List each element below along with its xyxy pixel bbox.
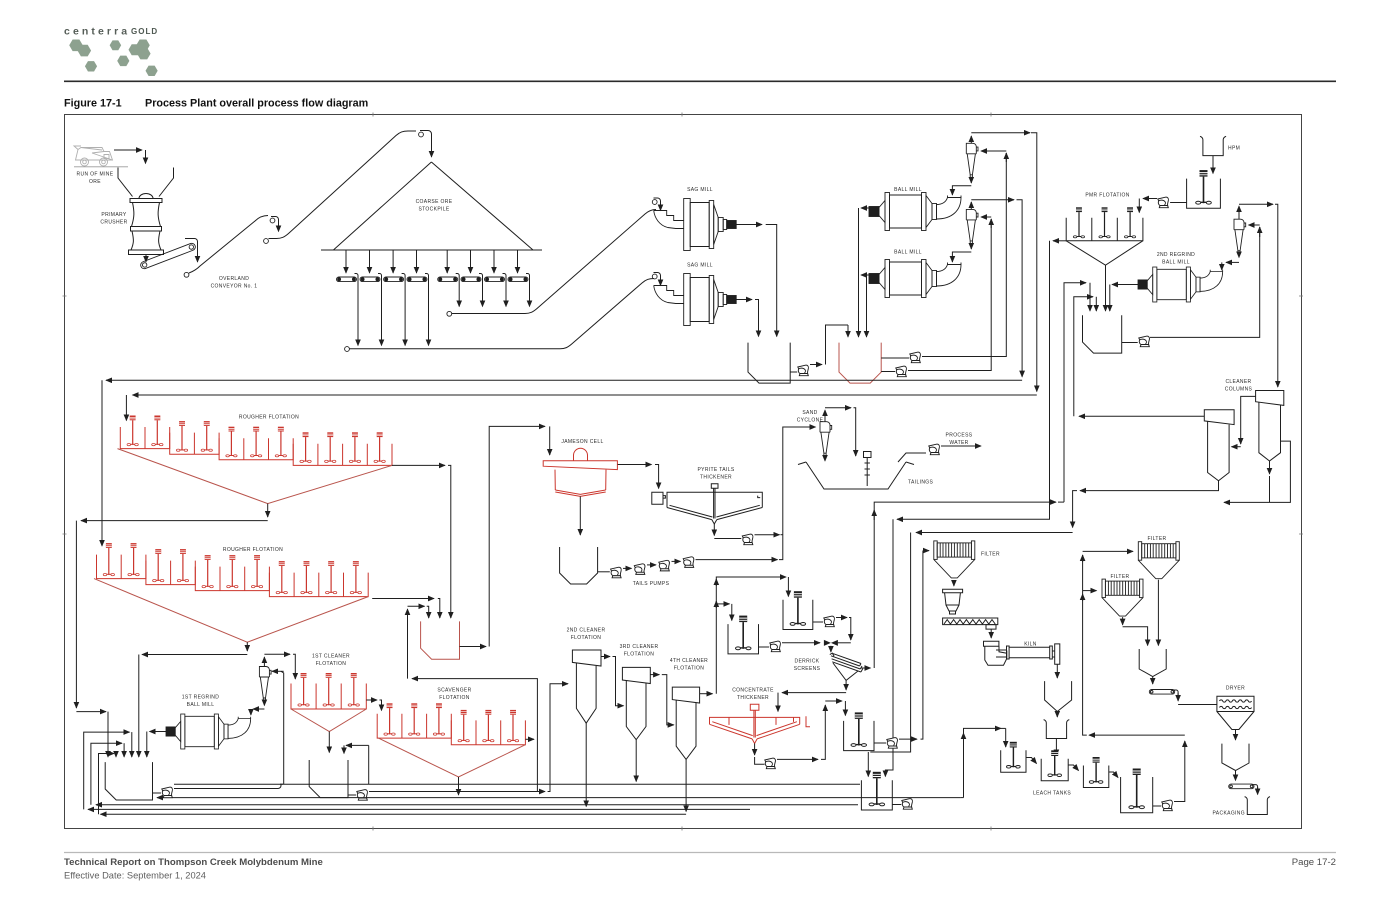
primary crusher body <box>139 194 153 199</box>
wire: feeder 3 discharge <box>402 274 406 283</box>
jameson cell (red) <box>574 448 588 460</box>
svg-text:COARSE ORE: COARSE ORE <box>416 199 453 205</box>
wire: regrind mill discharge to regrind sump <box>1112 284 1138 286</box>
svg-text:FLOTATION: FLOTATION <box>624 652 655 658</box>
svg-text:SCAVENGER: SCAVENGER <box>437 688 471 694</box>
footer rule <box>64 852 1336 854</box>
wire: sand cyclone underflow to tailings <box>824 456 826 461</box>
wire: screens undersize down <box>845 680 847 690</box>
pump: sag sump pump <box>798 365 809 376</box>
wire: rougher 1 tails to flotation feed sump <box>392 464 445 466</box>
svg-text:BALL MILL: BALL MILL <box>1162 260 1190 266</box>
pump: process water pump <box>929 444 940 455</box>
svg-text:3RD CLEANER: 3RD CLEANER <box>620 644 659 650</box>
svg-text:PMR FLOTATION: PMR FLOTATION <box>1085 193 1129 199</box>
1st cleaner flotation bank <box>291 684 366 710</box>
wire: riser to filter 2 <box>1083 590 1097 592</box>
svg-text:FLOTATION: FLOTATION <box>674 666 705 672</box>
feeder 3 <box>392 250 394 273</box>
wire: ball mill 1 discharge to cyclone feed sump <box>861 207 869 209</box>
feeder 8 <box>517 250 519 273</box>
pump: storage tank A pump <box>824 616 835 627</box>
leach tank 1 <box>1001 750 1026 772</box>
2nd cleaner column <box>572 650 601 666</box>
wire: rougher 2 concentrate down to regrind sump collection <box>246 642 248 651</box>
wire: 1st cleaner tails to scavenger <box>366 699 377 701</box>
rougher bank 2 concentrate funnel <box>94 579 368 643</box>
svg-text:Page 17-2: Page 17-2 <box>1292 857 1336 868</box>
wire: cyclone 2 underflow to ball mill 2 <box>970 244 972 249</box>
sand cyclone <box>820 422 832 456</box>
wire: regrind cyclone underflow to regrind mill <box>1238 253 1240 258</box>
wire: sand cyclone overflow to tailings <box>824 410 826 422</box>
wire: screw conveyor to kiln <box>990 629 992 638</box>
wire: PMR tails to rougher feed line B <box>1053 240 1066 242</box>
wire: thickener u/f pump to leach feed tank <box>777 758 818 760</box>
concentrate thickener (red) <box>710 717 800 724</box>
dryer product hopper <box>1222 744 1249 771</box>
flotation feed sump (red) <box>421 621 460 659</box>
packaging conveyor <box>1229 784 1254 789</box>
svg-text:Process Plant overall process: Process Plant overall process flow diagr… <box>145 98 368 110</box>
feeder 5 <box>446 250 448 273</box>
kiln product hopper <box>1045 681 1072 711</box>
wire: HPM to reagent tank <box>1212 156 1214 174</box>
wire: rougher 2 tails to flotation feed sump <box>372 598 434 600</box>
wire: valve to derrick screens <box>830 646 832 652</box>
1st cleaner feed cyclone <box>259 666 271 700</box>
svg-text:CONVEYOR No. 1: CONVEYOR No. 1 <box>211 284 258 290</box>
wire: column 2 recycle to column 1 <box>1241 396 1256 444</box>
svg-text:OVERLAND: OVERLAND <box>219 276 249 282</box>
wire: pump to primary cyclone 1 <box>922 153 1006 357</box>
PMR flotation bank <box>1066 218 1143 241</box>
wire: 3rd cleaner concentrate to 4th cleaner <box>650 674 659 676</box>
wire: 4th cleaner concentrate to riser <box>700 693 713 695</box>
SAG mill discharge sump <box>748 343 790 384</box>
pyrite tails thickener <box>667 492 762 507</box>
wire: jameson underflow to tails sump <box>579 496 581 535</box>
wire: crusher discharge <box>145 255 147 263</box>
regrind cyclone <box>1234 219 1246 253</box>
wire: tails collection line 6 <box>101 813 687 815</box>
wire: ball mill 2 discharge to cyclone feed sump <box>861 274 869 276</box>
wire: tote to leach tank 2 <box>1055 739 1057 756</box>
feeder 2 <box>369 250 371 273</box>
leach tank 3 <box>1083 766 1108 788</box>
pump: thickener underflow pump <box>765 758 776 769</box>
kiln feed box <box>984 641 1007 665</box>
svg-text:FLOTATION: FLOTATION <box>316 661 347 667</box>
wire: leach pump to filter riser <box>1174 741 1185 802</box>
svg-text:PROCESS: PROCESS <box>946 433 973 439</box>
svg-text:CONCENTRATE: CONCENTRATE <box>732 688 774 694</box>
tailings pond <box>798 462 914 489</box>
svg-text:DERRICK: DERRICK <box>795 659 820 665</box>
svg-text:THICKENER: THICKENER <box>700 475 732 481</box>
svg-text:FILTER: FILTER <box>1111 574 1130 580</box>
svg-text:ROUGHER FLOTATION: ROUGHER FLOTATION <box>239 415 299 421</box>
haul truck (run of mine ore) <box>74 146 128 167</box>
4th cleaner column <box>672 687 699 703</box>
svg-text:1ST CLEANER: 1ST CLEANER <box>312 654 350 660</box>
wire: riser x963 to leach tank 1 <box>961 797 964 799</box>
svg-text:FILTER: FILTER <box>1148 536 1167 542</box>
pyrite thickener feed box <box>652 492 666 504</box>
wire: column 2 side stream <box>1224 441 1290 502</box>
wire: 4th cleaner tails <box>685 759 687 811</box>
reclaim conveyor east (to SAG mill 1) <box>447 311 452 316</box>
wire: feeder 8 discharge <box>526 274 530 283</box>
cyclone feed sump (red) <box>839 343 881 384</box>
HPM hopper <box>1200 136 1226 155</box>
svg-text:THICKENER: THICKENER <box>737 695 769 701</box>
wire: cyclone 1 underflow to ball mill 1 <box>970 178 972 184</box>
wire: 2nd cleaner tails <box>585 723 587 806</box>
valve <box>824 640 838 646</box>
svg-text:TAILINGS: TAILINGS <box>908 480 934 486</box>
wire: flotation feed sump to jameson cell <box>460 646 487 648</box>
svg-text:Effective Date: September 1, 2: Effective Date: September 1, 2024 <box>64 871 206 881</box>
inclined feeder conveyor <box>140 242 197 270</box>
wire: riser to filter 1 <box>1083 550 1133 552</box>
wire: regrind circuit pump to cyclone <box>174 788 278 790</box>
svg-text:TAILS PUMPS: TAILS PUMPS <box>633 581 670 587</box>
wire: pump to primary cyclone 2 <box>908 219 991 371</box>
regrind mill sump <box>1083 315 1122 353</box>
svg-text:KILN: KILN <box>1024 642 1037 648</box>
svg-text:BALL MILL: BALL MILL <box>894 187 922 193</box>
svg-text:BALL MILL: BALL MILL <box>894 250 922 256</box>
pump: pyrite underflow pump <box>742 534 753 545</box>
wire: 1st cleaner cyclone overflow to 1st cleaner flotation <box>263 657 265 667</box>
wire: regrind pump to 1st cleaner cyclone <box>281 671 284 784</box>
pump: filter feed pump <box>887 738 898 749</box>
wire: regrind pump to regrind cyclone <box>1150 227 1260 337</box>
svg-text:RUN OF MINE: RUN OF MINE <box>77 172 114 178</box>
reagent mix tank <box>1187 179 1221 209</box>
wire: pyrite thickener underflow <box>713 524 715 536</box>
jameson tails sump <box>560 547 598 584</box>
cleaner column 2 <box>1256 391 1284 406</box>
wire: feeder 4 discharge <box>425 274 429 283</box>
wire: rougher feed line A (to lower bank) <box>106 379 1022 381</box>
scavenger flotation bank <box>377 714 451 738</box>
PMR concentrate funnel <box>1066 241 1143 265</box>
primary cyclone 1 <box>966 143 978 177</box>
rougher flotation bank 2 <box>97 555 146 579</box>
pump: regrind sump pump <box>1139 336 1150 347</box>
storage tank B <box>728 624 759 654</box>
wire: 1st cleaner cyclone underflow to 1st regrind mill <box>263 701 265 706</box>
svg-text:LEACH TANKS: LEACH TANKS <box>1033 791 1071 797</box>
wire: cyclone 2 overflow to rougher feed line A <box>970 202 972 209</box>
svg-text:SAND: SAND <box>802 410 817 416</box>
primary crusher hopper <box>118 168 174 197</box>
feeder 6 <box>470 250 472 273</box>
wire: tails pumps to sand cyclone <box>696 559 778 561</box>
wire: 1st cleaner concentrate to cleaner conc sump <box>328 732 330 753</box>
wire: feeder 1 discharge <box>355 274 359 283</box>
wire: leach cascade 1-2 <box>1026 758 1037 764</box>
cleaner column 1 <box>1204 410 1234 425</box>
leach tank 2 <box>1041 759 1068 781</box>
wire: tails collection line 4 <box>96 804 858 806</box>
wire: rougher 1 concentrate to left collection <box>267 504 269 517</box>
wire: feeder 6 discharge <box>479 274 483 283</box>
rougher flotation bank 1 <box>120 427 169 449</box>
wire: regrind cyclone overflow to cleaner column 2 <box>1238 206 1240 219</box>
svg-text:HPM: HPM <box>1228 146 1240 152</box>
wire: scavenger tails recycle <box>525 738 534 740</box>
svg-text:2ND REGRIND: 2ND REGRIND <box>1157 252 1195 258</box>
svg-text:SAG MILL: SAG MILL <box>687 187 713 193</box>
feeder 1 <box>345 250 347 273</box>
wire: feeder 7 discharge <box>503 274 507 283</box>
filter hopper and feeder <box>953 580 955 586</box>
overland conveyor no.1 profile <box>184 272 189 277</box>
3rd cleaner column <box>622 667 650 683</box>
pumps: tails pumps x4 <box>611 567 622 578</box>
packaging tote <box>1245 797 1270 815</box>
svg-text:SAG MILL: SAG MILL <box>687 263 713 269</box>
wire: 1st regrind discharge to cleaner sump <box>150 731 167 733</box>
derrick screens <box>830 653 863 672</box>
wire: leach cascade 2-3 <box>1068 765 1078 771</box>
svg-text:WATER: WATER <box>949 440 968 446</box>
wire: 3rd cleaner tails <box>635 740 637 782</box>
pump: cleaner conc pump <box>357 790 368 801</box>
regrind circuit sump <box>105 762 152 800</box>
svg-text:COLUMNS: COLUMNS <box>1225 387 1253 393</box>
cleaner concentrate sump <box>309 760 348 798</box>
kiln <box>996 646 1052 659</box>
wire: cleaner conc pump to 2nd cleaner column <box>369 791 545 793</box>
wire: reagent to PMR flotation <box>1143 198 1157 200</box>
svg-text:SCREENS: SCREENS <box>794 666 821 672</box>
svg-text:2ND CLEANER: 2ND CLEANER <box>567 628 606 634</box>
wire: derrick screen oversize return to regrind sump <box>1064 283 1086 502</box>
wire: rougher feed line B (to upper bank) <box>133 394 1037 396</box>
svg-text:PACKAGING: PACKAGING <box>1212 811 1245 817</box>
svg-text:CLEANER: CLEANER <box>1225 379 1251 385</box>
leach surge tank <box>861 780 892 810</box>
svg-text:STOCKPILE: STOCKPILE <box>418 207 449 213</box>
wire: tank A pump to valve junction <box>836 617 847 619</box>
wire: feeder to overland conveyor tail <box>185 239 198 260</box>
svg-text:BALL MILL: BALL MILL <box>187 702 215 708</box>
wire: 2nd cleaner concentrate to 3rd cleaner <box>601 656 610 658</box>
feeder 4 <box>416 250 418 273</box>
wire: tails collection line 3 <box>157 797 961 799</box>
primary cyclone 2 <box>966 209 978 243</box>
wire: truck to primary crusher <box>114 149 142 151</box>
wire: 4th cleaner concentrate riser to storage tanks <box>716 577 786 694</box>
wire: scavenger concentrate return to flotation feed sump <box>407 609 409 679</box>
wire: sag sump pump to cyclone feed sump <box>810 364 822 366</box>
dryer feed hopper <box>1139 649 1166 677</box>
wire: column 2 underflow <box>1269 461 1271 474</box>
pressure filter (centre) <box>934 541 975 578</box>
wire: tails collection line 5 <box>88 808 750 810</box>
wire: scavenger concentrate to tails line <box>458 777 460 795</box>
svg-text:4TH CLEANER: 4TH CLEANER <box>670 658 708 664</box>
wire: leach cascade 3-4 <box>1109 772 1118 778</box>
wire: 2nd cleaner feed line (cleaner columns tails) <box>1080 481 1219 491</box>
pump: cyclone feed pump 2 <box>896 366 907 377</box>
wire: filter 1 cake to dryer hopper <box>1157 580 1159 646</box>
wire: concentrate thickener underflow <box>754 744 756 756</box>
wire: screens oversize to regrind circuit <box>861 667 871 669</box>
kiln product tote <box>1044 720 1070 739</box>
wire: process water supply <box>941 445 981 447</box>
svg-text:GOLD: GOLD <box>131 27 158 36</box>
wire: feeder 2 discharge <box>378 274 382 283</box>
storage tank A <box>783 600 813 630</box>
svg-text:FLOTATION: FLOTATION <box>571 635 602 641</box>
svg-text:ORE: ORE <box>89 179 101 185</box>
wire: feeder 5 discharge <box>456 274 460 283</box>
svg-text:Technical Report on Thompson C: Technical Report on Thompson Creek Molyb… <box>64 857 323 868</box>
wire: SAG mill 1 discharge to mill sump <box>736 224 762 226</box>
wire: SAG mill 2 discharge to mill sump <box>736 299 752 301</box>
wire: PMR concentrate to regrind sump <box>1105 265 1107 311</box>
dryer feed conveyor <box>1149 690 1174 695</box>
wire: filter 2 cake to dryer hopper <box>1122 617 1124 625</box>
wire: recycle into cleaner conc sump <box>346 744 369 746</box>
wire: pyrite pump to tails riser <box>755 534 780 536</box>
svg-text:CRUSHER: CRUSHER <box>100 220 127 226</box>
wire: filter feed pump to pressure filter <box>899 738 917 740</box>
screw conveyor <box>943 618 998 625</box>
wire: kiln discharge <box>1056 664 1058 678</box>
pump: storage tank B pump <box>770 641 781 652</box>
svg-text:centerra: centerra <box>64 26 130 38</box>
svg-text:Figure 17-1: Figure 17-1 <box>64 98 122 110</box>
1st cleaner concentrate funnel <box>291 709 366 732</box>
svg-text:1ST REGRIND: 1ST REGRIND <box>182 695 219 701</box>
wire: screens undersize to concentrate thickener <box>782 692 846 694</box>
stockpile feed conveyor <box>264 239 269 244</box>
wire: cyclone 1 overflow to rougher feed line B <box>970 136 972 143</box>
leach tank 4 <box>1121 777 1153 813</box>
pump: leach surge pump <box>902 799 913 810</box>
rougher bank 1 concentrate funnel <box>118 449 393 504</box>
feeder 7 <box>493 250 495 273</box>
scavenger concentrate funnel <box>378 738 525 777</box>
pump: leach discharge pump <box>1162 800 1173 811</box>
wire: tank B pump to valve <box>782 642 820 644</box>
wire: tails collection line 1 <box>174 783 860 785</box>
svg-text:PYRITE TAILS: PYRITE TAILS <box>697 467 734 473</box>
pump: regrind circuit pump <box>162 787 173 798</box>
svg-text:DRYER: DRYER <box>1226 686 1245 692</box>
leach feed tank <box>844 721 874 751</box>
svg-text:FLOTATION: FLOTATION <box>439 695 470 701</box>
reclaim conveyor west (to SAG mill 2) <box>345 347 350 352</box>
svg-text:PRIMARY: PRIMARY <box>101 212 126 218</box>
svg-text:ROUGHER FLOTATION: ROUGHER FLOTATION <box>223 547 283 553</box>
pump: cyclone feed pump 1 <box>910 352 921 363</box>
svg-text:JAMESON CELL: JAMESON CELL <box>561 439 603 445</box>
1st regrind ball mill <box>166 714 251 749</box>
svg-text:FILTER: FILTER <box>981 552 1000 558</box>
wire: cleaner column tails return to regrind sump <box>1074 297 1093 417</box>
wire: column 1 overflow return line <box>1079 415 1204 417</box>
pump: reagent pump <box>1158 197 1169 208</box>
header rule <box>64 80 1336 82</box>
diagram border <box>65 115 1302 829</box>
coarse ore stockpile <box>321 162 542 250</box>
dryer <box>1217 696 1254 711</box>
wire: jameson froth to pyrite feed box <box>618 464 652 466</box>
